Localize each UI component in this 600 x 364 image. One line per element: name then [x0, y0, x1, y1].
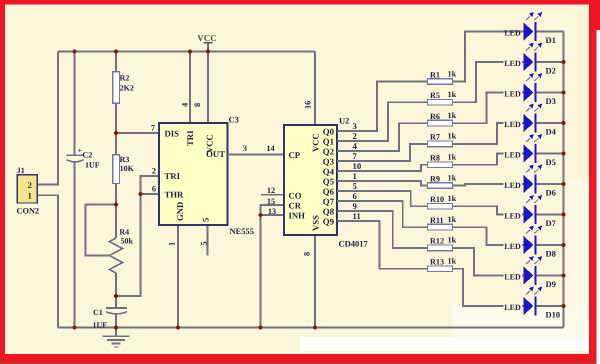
wire LED D5 cathode to rail — [537, 153, 564, 155]
wire DIS node to NE555 pin7 — [116, 132, 159, 134]
wire R11 to LED D8 — [453, 227, 524, 245]
svg-text:1k: 1k — [448, 90, 457, 99]
LED D6 — [504, 165, 556, 198]
resistor R3 10K — [113, 155, 135, 184]
svg-text:10: 10 — [353, 161, 362, 171]
wire NE555 pin2 tie — [116, 176, 159, 296]
wire LED D2 cathode to rail — [537, 61, 564, 63]
wire LED D1 cathode to rail — [537, 31, 564, 33]
svg-text:LED: LED — [504, 90, 521, 99]
wire LED cathode right rail — [563, 32, 565, 328]
capacitor C1 1UF — [93, 308, 128, 329]
wire CD4017 pin8 VSS to ground — [314, 235, 316, 328]
svg-text:7: 7 — [353, 151, 358, 161]
svg-text:12: 12 — [267, 186, 275, 195]
svg-text:U2: U2 — [339, 116, 349, 126]
wire R2 to node DIS — [115, 103, 117, 154]
svg-text:Q9: Q9 — [323, 216, 335, 226]
svg-text:9: 9 — [353, 201, 358, 211]
svg-text:DIS: DIS — [165, 129, 180, 139]
svg-text:VCC: VCC — [197, 33, 217, 43]
svg-text:2K2: 2K2 — [120, 84, 134, 93]
svg-text:R9: R9 — [430, 174, 440, 183]
resistor R12 1k — [428, 236, 457, 251]
svg-text:2: 2 — [28, 180, 32, 190]
node CR/INH junction — [258, 213, 262, 217]
node rail junction D5 — [561, 151, 565, 155]
wire LED D9 cathode to rail — [537, 275, 564, 277]
LED D10 — [504, 287, 561, 320]
resistor R2 2K2 — [113, 72, 134, 104]
svg-text:4: 4 — [353, 141, 358, 151]
node R3/R4 junction — [114, 202, 118, 206]
wire NE555 pin3 OUT to CD4017 pin14 CP — [228, 154, 285, 156]
svg-text:LED: LED — [504, 242, 521, 251]
LED D2 — [504, 43, 556, 76]
svg-text:D9: D9 — [546, 279, 556, 289]
svg-text:OUT: OUT — [206, 149, 225, 159]
svg-text:5: 5 — [201, 217, 211, 222]
svg-text:CD4017: CD4017 — [339, 239, 369, 249]
wire CD4017 Q8 pin9 to R12 — [337, 211, 428, 248]
svg-text:1: 1 — [168, 242, 177, 246]
svg-text:1k: 1k — [448, 69, 457, 78]
svg-text:1UF: 1UF — [85, 161, 100, 170]
svg-text:6: 6 — [353, 191, 358, 201]
resistor R7 1k — [428, 132, 457, 147]
svg-text:R10: R10 — [430, 195, 444, 204]
connector J1 CON2 — [17, 166, 40, 215]
svg-text:5: 5 — [200, 241, 209, 245]
wire C2 branch lower — [74, 162, 76, 328]
svg-text:R7: R7 — [430, 133, 440, 142]
wire VCC rail to R2 — [115, 52, 117, 72]
resistor R1 1k — [428, 69, 457, 84]
svg-text:CP: CP — [289, 150, 301, 160]
wire R13 to LED D10 — [453, 269, 524, 306]
wire R3 to R4 node — [115, 183, 117, 238]
wire R10 to LED D7 — [453, 206, 524, 214]
svg-text:Q6: Q6 — [323, 186, 335, 196]
node pin6 tie junction — [138, 192, 142, 196]
svg-text:LED: LED — [504, 273, 521, 282]
wire LED D7 cathode to rail — [537, 214, 564, 216]
wire NE555 pin4 to VCC rail — [189, 52, 191, 124]
wire R12 to LED D9 — [453, 248, 524, 276]
LED D4 — [504, 104, 557, 137]
wire J1 pin1 to ground rail — [37, 195, 58, 327]
node rail junction D7 — [561, 212, 565, 216]
svg-text:4: 4 — [181, 103, 190, 107]
op-amp U1 NE555 timer C3 — [159, 115, 254, 237]
svg-text:13: 13 — [268, 207, 276, 216]
svg-text:VCC: VCC — [311, 133, 321, 152]
svg-text:R12: R12 — [430, 237, 444, 246]
svg-text:J1: J1 — [17, 166, 25, 175]
svg-text:7: 7 — [151, 123, 155, 132]
svg-text:LED: LED — [504, 120, 521, 129]
svg-text:Q8: Q8 — [323, 206, 335, 216]
svg-text:R1: R1 — [430, 70, 440, 79]
wire NE555 pin1 to ground — [177, 225, 179, 328]
node ground rail junctions — [72, 325, 317, 329]
wire R6 to LED D3 — [453, 93, 524, 124]
wire CD4017 Q5 pin1 to R9 — [337, 181, 428, 186]
wire NE555 pin8 to VCC rail — [207, 52, 209, 124]
wire CD4017 Q2 pin4 to R6 — [337, 123, 428, 151]
resistor R13 1k — [428, 257, 457, 272]
svg-text:D10: D10 — [546, 309, 561, 319]
svg-text:TRI: TRI — [165, 171, 181, 181]
svg-text:50k: 50k — [121, 236, 134, 245]
wire CD4017 Q3 pin7 to R7 — [337, 144, 428, 161]
svg-text:14: 14 — [266, 144, 274, 153]
svg-text:Q3: Q3 — [323, 156, 335, 166]
wire CD4017 Q7 pin6 to R11 — [337, 201, 428, 227]
wire CD4017 Q4 pin10 to R8 — [337, 165, 428, 171]
svg-text:8: 8 — [193, 103, 202, 107]
wire LED D10 cathode to rail — [537, 305, 564, 307]
svg-text:1k: 1k — [448, 132, 457, 141]
wire C1 bottom — [115, 314, 117, 328]
svg-text:5: 5 — [353, 181, 358, 191]
wire R4 wiper loop — [85, 205, 116, 256]
svg-text:D8: D8 — [546, 248, 556, 258]
node pin7/R2 junction — [114, 131, 118, 135]
svg-text:LED: LED — [504, 151, 521, 160]
svg-text:16: 16 — [304, 101, 313, 109]
svg-text:10K: 10K — [120, 164, 135, 173]
CD4017 left pin numbers — [267, 101, 313, 256]
svg-text:TRI: TRI — [185, 130, 195, 146]
svg-text:3: 3 — [243, 144, 247, 153]
wire R4 bottom to C1 node — [115, 273, 117, 296]
svg-text:NE555: NE555 — [230, 226, 255, 236]
svg-text:11: 11 — [353, 211, 361, 221]
svg-text:D6: D6 — [546, 187, 556, 197]
node rail junction D4 — [561, 121, 565, 125]
svg-text:D3: D3 — [546, 96, 556, 106]
NE555 pin numbers — [151, 103, 209, 246]
LED D5 — [504, 134, 556, 167]
svg-text:C2: C2 — [83, 151, 93, 160]
wire CD4017 Q9 pin11 to R13 — [337, 221, 428, 269]
capacitor C2 1UF polarized — [67, 146, 100, 169]
svg-text:Q1: Q1 — [323, 136, 334, 146]
wire ground bottom rail — [58, 327, 564, 329]
svg-text:8: 8 — [303, 252, 312, 256]
svg-text:R4: R4 — [119, 227, 129, 236]
svg-text:1k: 1k — [448, 173, 457, 182]
wire LED D6 cathode to rail — [537, 183, 564, 185]
resistor R10 1k — [428, 194, 457, 209]
svg-text:1UF: 1UF — [93, 320, 108, 329]
svg-text:CR: CR — [289, 201, 302, 211]
node rail junction D9 — [561, 273, 565, 277]
svg-text:D5: D5 — [546, 157, 556, 167]
svg-text:Q0: Q0 — [323, 126, 335, 136]
LED D7 — [504, 195, 557, 228]
svg-text:LED: LED — [504, 59, 521, 68]
wire R5 to LED D2 — [453, 62, 524, 102]
wire CD4017 Q6 pin5 to R10 — [337, 191, 428, 206]
svg-text:R5: R5 — [430, 91, 440, 100]
wire C1 top — [115, 296, 117, 308]
svg-text:1k: 1k — [448, 236, 457, 245]
svg-text:1k: 1k — [448, 257, 457, 266]
LED D8 — [504, 226, 556, 259]
resistor R8 1k — [428, 153, 457, 168]
svg-text:R11: R11 — [430, 216, 444, 225]
node rail junction D6 — [561, 182, 565, 186]
svg-text:D4: D4 — [546, 126, 557, 136]
svg-text:R8: R8 — [430, 154, 440, 163]
svg-text:1k: 1k — [448, 111, 457, 120]
wire NE555 pin6 tie — [141, 193, 160, 195]
node rail junction D10 — [561, 304, 565, 308]
svg-text:6: 6 — [152, 184, 156, 193]
svg-text:1k: 1k — [448, 194, 457, 203]
wire R1 to LED D1 — [453, 32, 524, 82]
counter U2 CD4017 — [284, 116, 369, 249]
wire VCC top rail — [58, 51, 315, 53]
svg-text:CO: CO — [289, 190, 302, 200]
svg-text:VSS: VSS — [311, 215, 321, 231]
potentiometer R4 50k zigzag — [110, 227, 134, 273]
svg-text:1: 1 — [353, 171, 357, 181]
svg-text:LED: LED — [504, 181, 521, 190]
svg-text:LED: LED — [504, 212, 521, 221]
wire R8 to LED D5 — [453, 154, 524, 165]
svg-text:R3: R3 — [120, 155, 130, 164]
svg-text:D7: D7 — [546, 218, 557, 228]
svg-text:CON2: CON2 — [17, 207, 40, 216]
svg-text:1: 1 — [28, 190, 32, 200]
svg-text:2: 2 — [353, 131, 357, 141]
wire C2 branch upper — [74, 52, 76, 156]
resistor R11 1k — [428, 215, 457, 230]
wire LED D4 cathode to rail — [537, 122, 564, 124]
wire CD4017 pin12 CO stub — [261, 194, 284, 196]
wire CD4017 pin16 to VCC rail — [314, 52, 316, 126]
svg-text:Q7: Q7 — [323, 196, 335, 206]
resistor R9 1k — [428, 173, 457, 188]
svg-text:R2: R2 — [120, 74, 130, 83]
svg-text:15: 15 — [267, 197, 275, 206]
wire CD4017 Q1 pin2 to R5 — [337, 102, 428, 141]
wire R9 to LED D6 — [453, 184, 524, 186]
wire NE555 pin5 stub — [207, 225, 209, 256]
svg-text:Q4: Q4 — [323, 166, 335, 176]
wire CD4017 Q0 pin3 to R1 — [337, 82, 428, 132]
svg-text:1k: 1k — [448, 215, 457, 224]
svg-text:LED: LED — [504, 29, 521, 38]
resistor R6 1k — [428, 111, 457, 126]
svg-text:R6: R6 — [430, 112, 440, 121]
wire LED D3 cathode to rail — [537, 92, 564, 94]
node rail junction D2 — [561, 60, 565, 64]
svg-text:C1: C1 — [93, 308, 103, 317]
svg-text:C3: C3 — [229, 115, 239, 125]
svg-text:GND: GND — [175, 202, 185, 221]
node C1 top junction — [114, 294, 118, 298]
wire LED D8 cathode to rail — [537, 244, 564, 246]
node rail junction D3 — [561, 90, 565, 94]
wire J1 pin2 to VCC rail — [37, 52, 58, 185]
svg-text:Q2: Q2 — [323, 146, 335, 156]
svg-text:D1: D1 — [546, 35, 556, 45]
svg-text:INH: INH — [289, 211, 306, 221]
wire CD4017 pin13 INH — [261, 214, 285, 216]
ground symbol — [103, 328, 130, 348]
wire R7 to LED D4 — [453, 123, 524, 144]
svg-text:THR: THR — [165, 190, 185, 200]
node VCC rail junctions — [72, 49, 210, 53]
svg-text:Q5: Q5 — [323, 176, 335, 186]
svg-text:1k: 1k — [448, 153, 457, 162]
wire CD4017 pin15 CR to ground — [261, 205, 285, 328]
svg-text:R13: R13 — [430, 258, 444, 267]
svg-text:LED: LED — [504, 303, 521, 312]
svg-text:D2: D2 — [546, 65, 556, 75]
node rail junction D8 — [561, 243, 565, 247]
LED D3 — [504, 73, 556, 106]
power symbol VCC — [197, 33, 217, 52]
svg-text:2: 2 — [152, 166, 156, 175]
resistor R5 1k — [428, 90, 457, 105]
svg-text:3: 3 — [353, 121, 358, 131]
LED D9 — [504, 256, 556, 289]
LED D1 — [504, 12, 556, 45]
